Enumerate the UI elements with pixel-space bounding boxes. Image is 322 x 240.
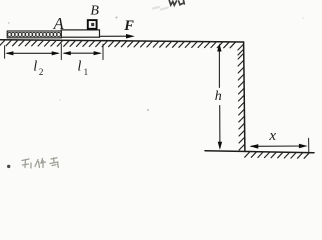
- block B inner mark: [91, 23, 94, 26]
- faint handwriting squiggle top: [169, 1, 184, 6]
- scan speckles: [8, 17, 304, 112]
- h dimension upper shaft: [218, 45, 220, 88]
- svg-text:l: l: [77, 58, 81, 74]
- svg-text:2: 2: [39, 67, 44, 77]
- dimension l1 right arrowhead: [94, 51, 102, 55]
- svg-text:l: l: [33, 58, 37, 74]
- svg-text:B: B: [90, 3, 99, 18]
- rough strip circles: [8, 33, 61, 37]
- svg-text:A: A: [53, 14, 65, 33]
- dimension l2 left arrowhead: [5, 51, 13, 55]
- dimension extension tick middle (below A): [60, 44, 62, 60]
- svg-text:F: F: [123, 18, 134, 34]
- lower ground hatching: [245, 152, 310, 159]
- cliff wall hatching: [238, 44, 245, 150]
- h dimension up arrowhead: [217, 43, 221, 51]
- h dimension down arrowhead: [218, 142, 222, 150]
- h dimension lower shaft: [219, 106, 221, 149]
- upper ground surface line: [0, 40, 244, 42]
- svg-text:x: x: [268, 128, 276, 144]
- force arrow F head: [126, 34, 135, 39]
- svg-text:1: 1: [84, 67, 89, 77]
- dimension extension tick right (below plank end): [102, 44, 104, 59]
- rough strip (band with circles): [7, 31, 61, 38]
- dimension line l1 shaft: [64, 52, 100, 54]
- svg-text:h: h: [215, 89, 222, 104]
- x dimension shaft: [251, 145, 306, 147]
- plank (board): [61, 30, 99, 37]
- dimension l2 right arrowhead: [52, 51, 60, 55]
- dimension line l2 shaft: [7, 52, 58, 54]
- upper ground hatching: [0, 40, 235, 48]
- x dimension right arrowhead: [299, 144, 308, 149]
- x dimension left arrowhead: [250, 144, 259, 149]
- force arrow F shaft: [100, 35, 128, 37]
- dimension l1 left arrowhead: [63, 51, 71, 55]
- bottom-left bullet dot: [7, 165, 10, 168]
- faint smudge near squiggle: [153, 7, 168, 10]
- x dimension right extension tick: [308, 138, 310, 152]
- bottom-left faint handwriting: [22, 158, 58, 168]
- cliff wall vertical line: [244, 42, 245, 151]
- dimension extension tick left: [4, 46, 6, 59]
- lower ground line: [205, 151, 314, 153]
- block B: [88, 20, 97, 29]
